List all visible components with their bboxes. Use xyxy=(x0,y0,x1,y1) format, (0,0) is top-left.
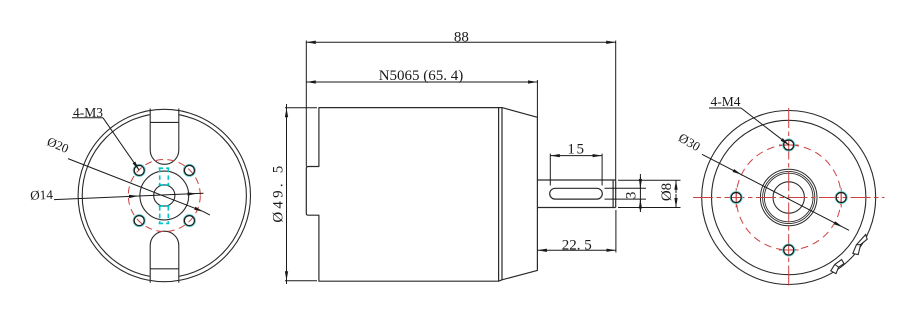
dimension d49.5 xyxy=(285,104,317,284)
mounting hole M3 lower-right xyxy=(184,215,196,227)
boss circle d14 xyxy=(140,171,189,220)
label 4-M3 with leader xyxy=(72,105,139,171)
mounting hole M3 upper-right xyxy=(184,165,196,177)
label d30 rotated with leader, two arrows xyxy=(676,130,849,230)
svg-text:Ø8: Ø8 xyxy=(659,183,675,201)
rim break flag 2 xyxy=(831,260,844,274)
hub ring 1 xyxy=(760,169,817,226)
svg-text:15: 15 xyxy=(567,141,585,157)
label 4-M4 with leader xyxy=(709,94,789,145)
label d14 with leader, two arrows xyxy=(30,187,204,203)
can rear edge line 1 xyxy=(498,108,500,282)
mounting hole M4 left xyxy=(730,192,742,204)
bolt circle d30 red dashed xyxy=(736,145,841,250)
label d20 rotated with leader through bolt circle xyxy=(45,135,210,216)
dimension 15 (flat length) xyxy=(550,154,602,186)
red center lines xyxy=(693,108,885,288)
mounting hole M4 top xyxy=(783,139,795,151)
shaft tip xyxy=(615,180,617,208)
rear inner rim circle xyxy=(712,120,866,274)
rim break flag 1 xyxy=(853,235,867,255)
rear outer circle xyxy=(702,111,876,285)
dimension d8 (shaft dia) xyxy=(618,180,681,207)
top slot chord line xyxy=(150,121,179,123)
bottom slot chord line xyxy=(150,268,179,270)
mounting hole M4 right xyxy=(835,192,847,204)
svg-text:3: 3 xyxy=(624,192,640,200)
svg-text:Ø14: Ø14 xyxy=(30,187,54,203)
hub ring 3 xyxy=(764,173,813,222)
can rear edge line 2 xyxy=(501,108,503,280)
hole tick left xyxy=(735,188,737,208)
svg-text:4-M4: 4-M4 xyxy=(711,94,741,109)
bottom slot cutout xyxy=(150,231,179,283)
svg-text:88: 88 xyxy=(454,30,469,46)
dimension N5065(65.4) xyxy=(306,80,537,117)
hidden wire slot (cyan dashed) bottom xyxy=(159,206,161,223)
svg-text:Ø49. 5: Ø49. 5 xyxy=(271,163,287,223)
motor outer circle (r86) xyxy=(78,109,250,281)
mounting hole M3 lower-left xyxy=(133,215,145,227)
shaft top xyxy=(537,179,615,181)
shaft bore circle xyxy=(773,182,804,213)
svg-text:N5065 (65. 4): N5065 (65. 4) xyxy=(379,68,464,84)
hole tick right xyxy=(840,188,842,208)
hub ring 2 xyxy=(763,171,815,223)
mounting hole M4 bottom xyxy=(783,244,795,256)
dimension 88 xyxy=(306,41,615,181)
hole tick bottom xyxy=(779,249,799,251)
top slot cutout (white fill erases inner rim) xyxy=(150,108,179,165)
svg-text:22. 5: 22. 5 xyxy=(562,237,592,253)
hidden wire slot (cyan dashed) top xyxy=(159,168,170,224)
bolt circle d20 (red dashed) xyxy=(128,160,200,232)
shaft tip chamfer xyxy=(612,180,614,208)
motor body outline xyxy=(306,108,537,282)
mounting hole M3 upper-left xyxy=(133,165,145,177)
motor inner rim circle (r82) xyxy=(82,113,246,277)
dimension 22.5 (shaft length) xyxy=(537,210,616,253)
shaft flat slot (stadium) xyxy=(550,188,603,199)
hole tick top xyxy=(779,144,799,146)
shaft bottom xyxy=(537,207,615,209)
center shaft hole xyxy=(154,185,175,206)
dimension 3 (flat depth) xyxy=(605,174,647,212)
